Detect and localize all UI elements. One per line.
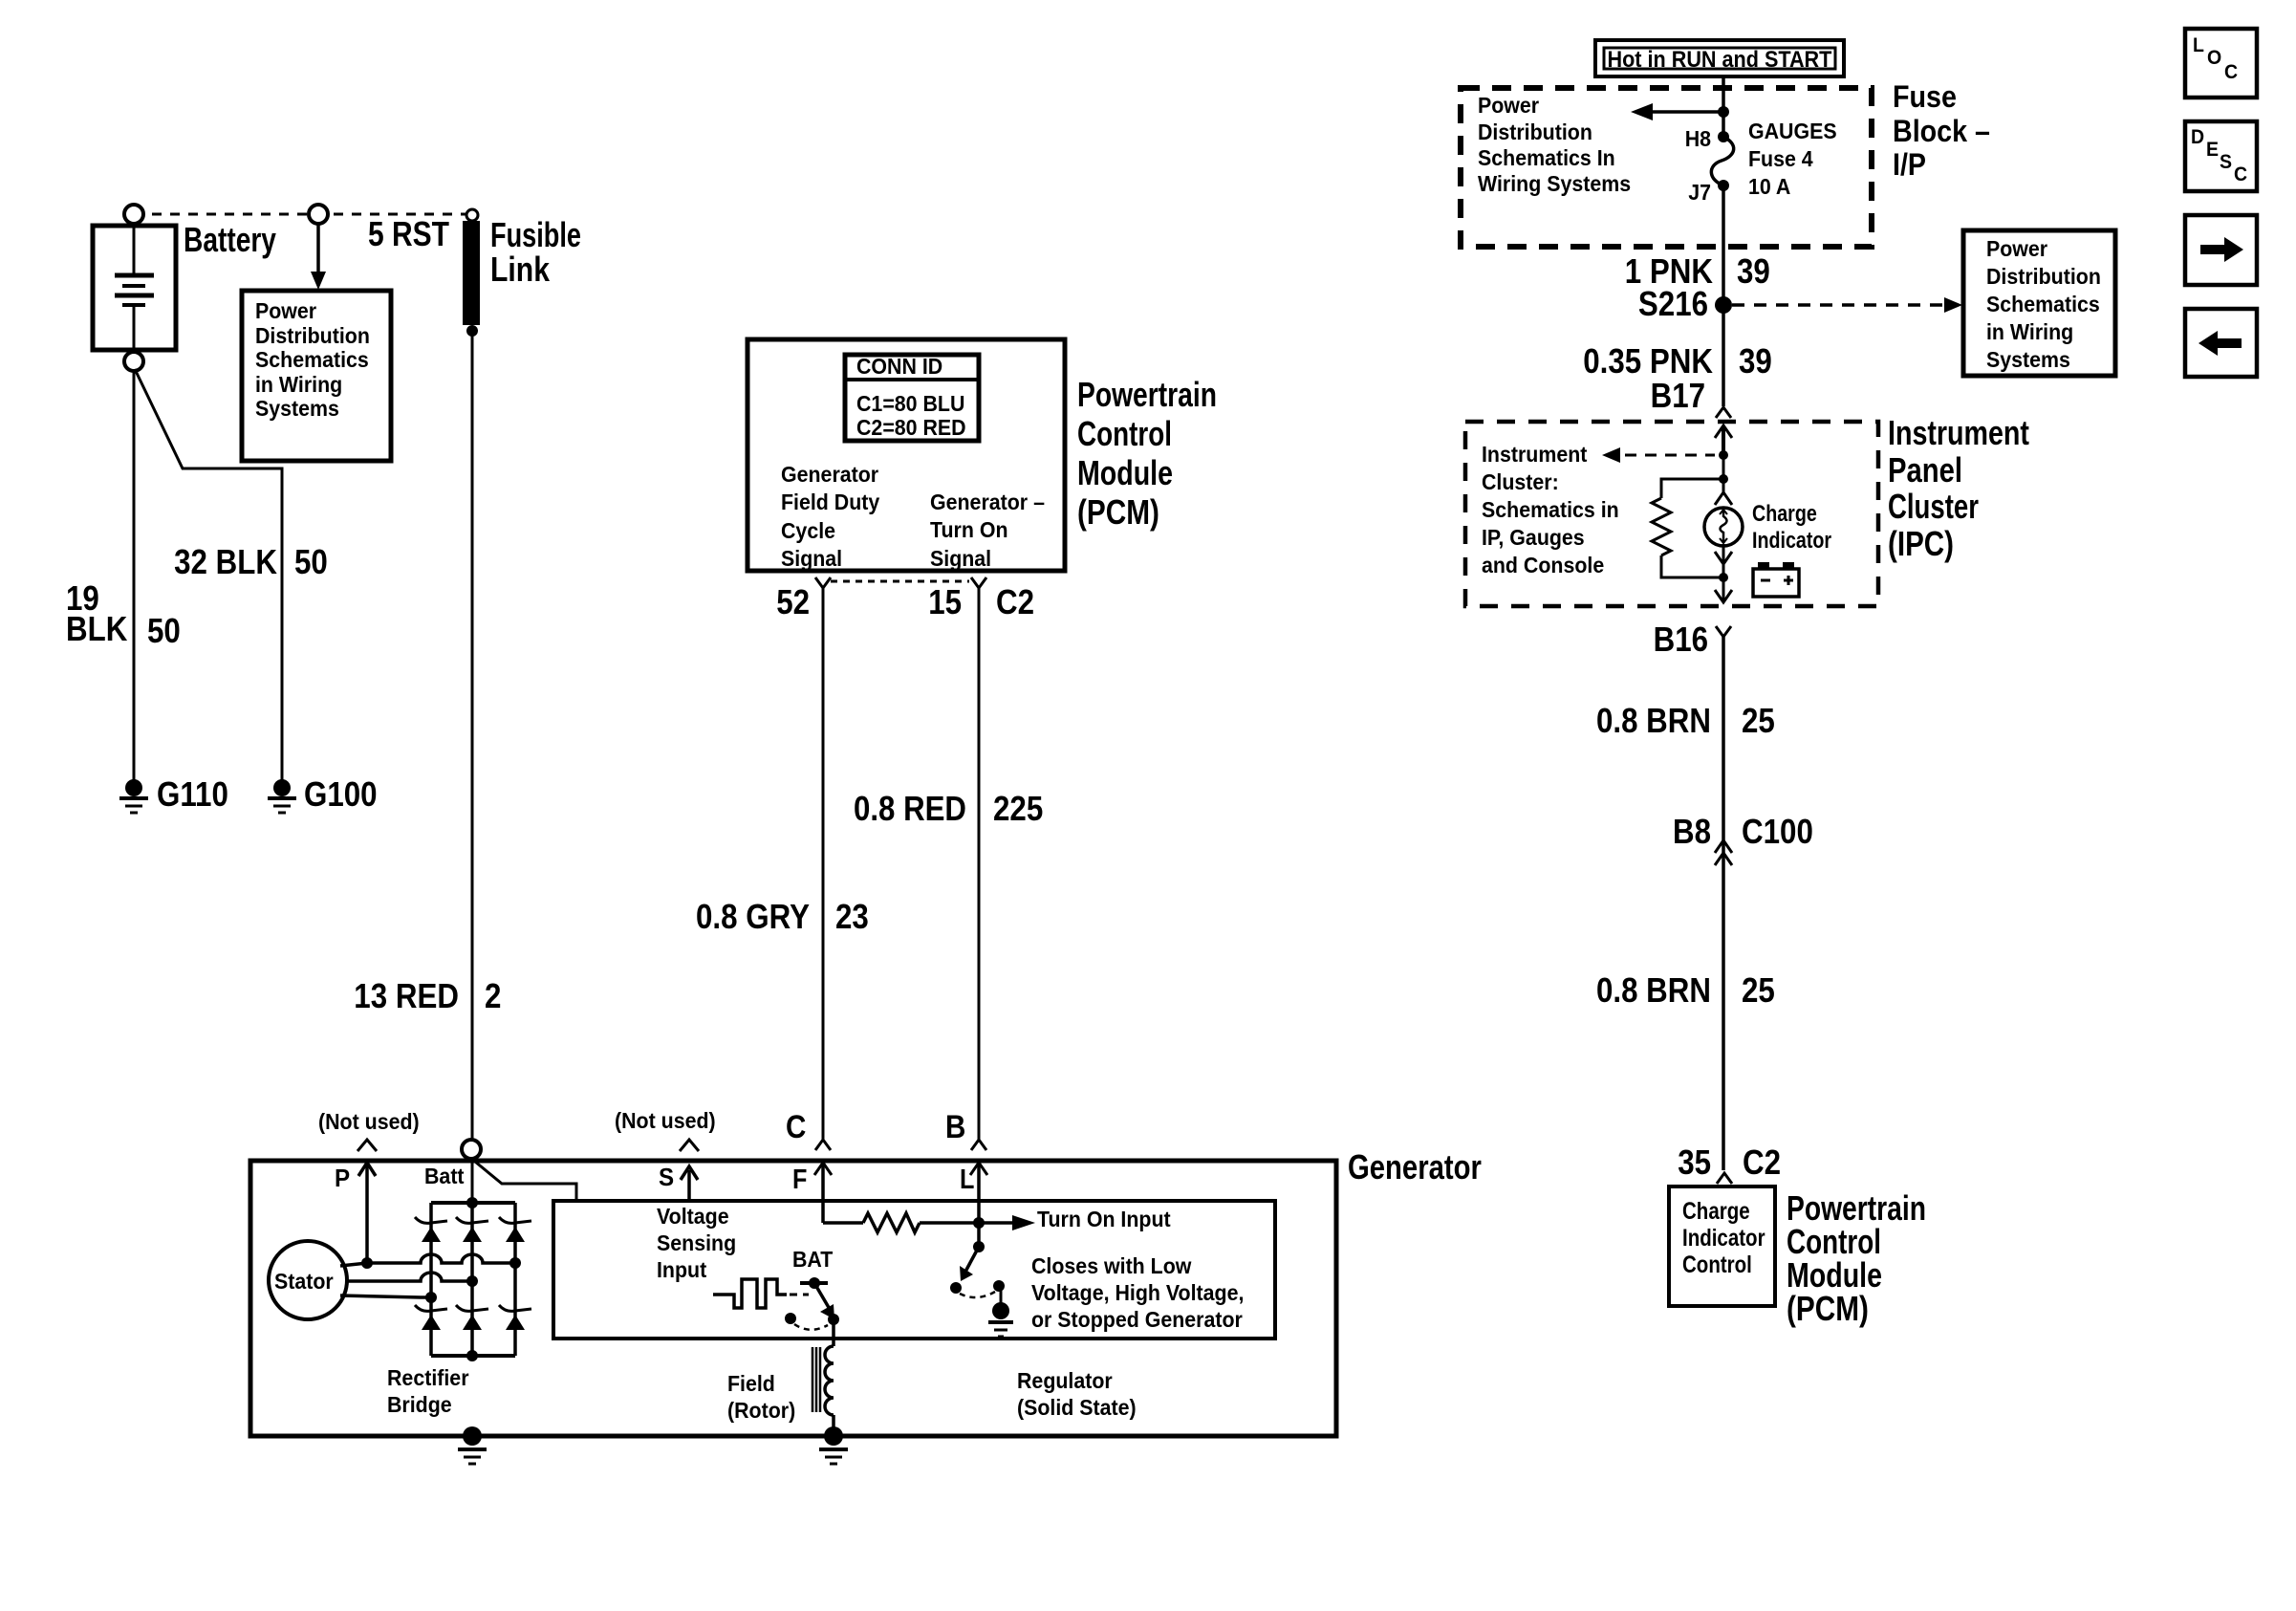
- svg-text:13 RED: 13 RED: [354, 977, 459, 1016]
- splice S216: [1715, 296, 1732, 314]
- wire: fuse to S216: [1722, 185, 1725, 406]
- instrument panel cluster dashed box: [1465, 422, 1878, 606]
- svg-text:25: 25: [1742, 971, 1775, 1011]
- svg-text:Panel: Panel: [1888, 450, 1962, 490]
- diode lower middle: [463, 1315, 482, 1330]
- switch L (closes with low voltage): [977, 1223, 981, 1247]
- svg-text:Turn On Input: Turn On Input: [1037, 1207, 1171, 1231]
- svg-text:(Solid State): (Solid State): [1017, 1395, 1137, 1420]
- svg-text:G100: G100: [304, 775, 378, 815]
- svg-text:Module: Module: [1077, 454, 1173, 492]
- svg-text:C2=80 RED: C2=80 RED: [856, 415, 966, 440]
- svg-text:2: 2: [485, 977, 501, 1016]
- svg-text:25: 25: [1742, 702, 1775, 741]
- wire: hot feed into fuse block: [1722, 76, 1725, 137]
- label Regulator (Solid State): [1017, 1368, 1113, 1393]
- svg-text:Fuse: Fuse: [1893, 80, 1957, 115]
- wire: 19 BLK battery to G110: [133, 371, 136, 781]
- svg-text:Regulator: Regulator: [1017, 1368, 1113, 1393]
- svg-text:C: C: [786, 1108, 806, 1144]
- terminal Batt circle: [462, 1140, 481, 1159]
- label B: [945, 1108, 965, 1144]
- power distribution schematics box (right): [1963, 230, 2115, 376]
- icon LOC: [2185, 29, 2257, 98]
- svg-text:15: 15: [928, 583, 962, 622]
- wire: 32 BLK battery to G100: [135, 369, 282, 781]
- svg-text:Schematics: Schematics: [255, 347, 369, 372]
- generator box: [250, 1161, 1336, 1436]
- IPC battery symbol: [1753, 569, 1799, 597]
- resistor (IPC shunt): [1719, 474, 1728, 484]
- svg-text:23: 23: [835, 898, 869, 937]
- wire: 0.8 GRY pin 52 to generator F: [822, 588, 825, 1140]
- icon arrow left: [2185, 309, 2257, 377]
- node: IPC lower junction: [1719, 573, 1728, 582]
- CONN ID table: [845, 355, 979, 441]
- svg-text:35: 35: [1678, 1143, 1711, 1183]
- svg-text:225: 225: [993, 790, 1043, 829]
- wire: battery internal top: [133, 224, 136, 276]
- svg-text:0.35 PNK: 0.35 PNK: [1583, 342, 1713, 381]
- connector fork C: [815, 1140, 831, 1150]
- label Charge Indicator: [1752, 500, 1817, 526]
- label Fusible Link: [490, 215, 581, 254]
- svg-text:B17: B17: [1651, 377, 1705, 416]
- svg-text:Voltage, High Voltage,: Voltage, High Voltage,: [1031, 1280, 1244, 1305]
- stator phase B wire: [345, 1273, 472, 1281]
- svg-text:L: L: [2193, 34, 2204, 56]
- label 0.35 PNK 39: [1583, 342, 1713, 381]
- wire: IPC exit: [1722, 577, 1725, 602]
- svg-text:or Stopped Generator: or Stopped Generator: [1031, 1307, 1243, 1332]
- pin 15 connector fork: [971, 577, 986, 588]
- svg-text:O: O: [2207, 47, 2221, 69]
- label (Not used) S: [615, 1108, 716, 1133]
- svg-text:S216: S216: [1638, 285, 1708, 324]
- svg-text:L: L: [960, 1163, 974, 1194]
- svg-text:C: C: [2224, 61, 2238, 83]
- svg-text:Batt: Batt: [424, 1164, 465, 1188]
- label 32 BLK 50: [174, 543, 277, 582]
- svg-text:Generator: Generator: [781, 462, 878, 487]
- label Field (Rotor): [727, 1371, 775, 1396]
- svg-text:Distribution: Distribution: [1478, 120, 1592, 144]
- label BAT: [792, 1247, 834, 1272]
- svg-text:0.8 BRN: 0.8 BRN: [1596, 702, 1711, 741]
- svg-text:S: S: [659, 1164, 674, 1191]
- svg-text:H8: H8: [1685, 126, 1711, 151]
- field coil ground: [824, 1426, 843, 1446]
- wire: Batt to rectifier bus: [471, 1159, 474, 1203]
- svg-text:(PCM): (PCM): [1077, 492, 1159, 531]
- wire: 0.8 RED pin 15 to generator L: [978, 588, 981, 1140]
- label (Not used) P: [318, 1109, 420, 1134]
- svg-text:C100: C100: [1742, 813, 1813, 852]
- field coil (rotor): [832, 1319, 835, 1346]
- svg-text:Bridge: Bridge: [387, 1392, 452, 1417]
- svg-text:39: 39: [1739, 342, 1772, 381]
- svg-text:Schematics in: Schematics in: [1482, 497, 1619, 522]
- svg-text:Charge: Charge: [1682, 1197, 1750, 1224]
- label 15: [928, 583, 962, 622]
- node: fusible link top circle: [466, 209, 478, 221]
- svg-text:F: F: [792, 1163, 807, 1194]
- svg-text:(Not used): (Not used): [615, 1108, 716, 1133]
- svg-text:52: 52: [776, 583, 810, 622]
- node: power distribution tap circle: [309, 205, 328, 224]
- icon arrow right: [2185, 215, 2257, 285]
- field duty cycle waveform: [713, 1279, 787, 1308]
- svg-text:50: 50: [147, 612, 181, 651]
- svg-text:IP, Gauges: IP, Gauges: [1482, 525, 1585, 550]
- label Voltage Sensing Input: [657, 1204, 729, 1229]
- svg-text:B8: B8: [1673, 813, 1711, 852]
- label 0.8 BRN 25 (upper): [1596, 702, 1711, 741]
- fuse block dashed box: [1461, 88, 1872, 247]
- svg-text:5 RST: 5 RST: [368, 215, 449, 253]
- svg-text:J7: J7: [1688, 180, 1711, 205]
- Hot in RUN and START box: [1595, 40, 1844, 76]
- power distribution schematics box (left): [242, 291, 391, 461]
- label 1 PNK 39: [1625, 252, 1714, 292]
- label C: [786, 1108, 806, 1144]
- label Fuse Block I/P: [1893, 80, 1957, 115]
- svg-text:0.8 GRY: 0.8 GRY: [696, 898, 810, 937]
- diode upper middle: [463, 1227, 482, 1242]
- svg-text:39: 39: [1737, 252, 1770, 292]
- svg-text:Field: Field: [727, 1371, 775, 1396]
- svg-text:Powertrain: Powertrain: [1077, 376, 1217, 414]
- connector C100: [1673, 813, 1711, 852]
- node: battery negative terminal circle: [124, 352, 143, 371]
- label Powertrain Control Module (PCM): [1077, 376, 1217, 414]
- charge indicator lamp: [1722, 455, 1725, 492]
- diode upper right: [506, 1227, 525, 1242]
- svg-text:GAUGES: GAUGES: [1748, 119, 1837, 143]
- svg-text:Hot in RUN and START: Hot in RUN and START: [1608, 46, 1832, 72]
- node: fuse feed junction: [1718, 106, 1729, 118]
- diode upper left: [422, 1227, 441, 1242]
- svg-text:B16: B16: [1654, 620, 1708, 660]
- svg-text:Signal: Signal: [781, 546, 842, 571]
- label 52: [776, 583, 810, 622]
- label 0.8 RED 225: [854, 791, 966, 829]
- svg-text:Indicator: Indicator: [1752, 527, 1831, 553]
- label G110: [157, 775, 228, 815]
- ground G110: [125, 779, 142, 796]
- svg-text:Schematics In: Schematics In: [1478, 145, 1615, 170]
- svg-text:Wiring Systems: Wiring Systems: [1478, 171, 1631, 196]
- label 5 RST: [368, 215, 449, 253]
- svg-text:0.8 BRN: 0.8 BRN: [1596, 971, 1711, 1011]
- battery: [93, 226, 176, 350]
- svg-text:C2: C2: [996, 583, 1034, 622]
- label 19 BLK 50: [66, 579, 99, 619]
- svg-text:Closes with Low: Closes with Low: [1031, 1253, 1192, 1278]
- svg-text:C2: C2: [1743, 1143, 1781, 1183]
- svg-text:Instrument: Instrument: [1888, 414, 2029, 452]
- svg-text:C: C: [2234, 163, 2247, 185]
- wire: Batt to regulator: [475, 1162, 576, 1201]
- svg-text:I/P: I/P: [1893, 149, 1926, 183]
- svg-text:Control: Control: [1077, 415, 1172, 453]
- label 0.8 GRY 23: [696, 898, 810, 937]
- svg-text:Systems: Systems: [255, 396, 339, 421]
- charge indicator control box: [1669, 1186, 1775, 1306]
- pin 52 connector fork: [815, 577, 831, 588]
- label C2 (pin): [996, 583, 1034, 622]
- terminal P arrow: [335, 1165, 350, 1192]
- svg-text:Cluster: Cluster: [1888, 487, 1979, 525]
- node: IPC entry junction: [1719, 450, 1728, 460]
- rectifier bottom bus: [431, 1354, 515, 1358]
- svg-text:Fuse 4: Fuse 4: [1748, 146, 1813, 171]
- stator phase A wire: [340, 1254, 515, 1266]
- icon DESC: [2185, 121, 2257, 191]
- stator: [269, 1241, 347, 1319]
- label Instrument Panel Cluster (IPC): [1888, 414, 2029, 452]
- label B17: [1651, 377, 1705, 416]
- regulator box: [553, 1201, 1275, 1339]
- diode lower right: [506, 1315, 525, 1330]
- svg-text:Sensing: Sensing: [657, 1230, 736, 1255]
- svg-text:50: 50: [294, 543, 328, 582]
- fusible link: [463, 221, 480, 325]
- connector B16: [1716, 626, 1731, 637]
- svg-text:Distribution: Distribution: [255, 323, 370, 348]
- label Powertrain Control Module (PCM) lower: [1787, 1189, 1926, 1228]
- label Generator Turn On Signal: [930, 490, 1045, 514]
- svg-text:in Wiring: in Wiring: [255, 372, 342, 397]
- node: L junction: [973, 1217, 985, 1229]
- svg-text:Indicator: Indicator: [1682, 1224, 1765, 1251]
- switch BAT contact: [800, 1281, 828, 1285]
- svg-text:10 A: 10 A: [1748, 174, 1790, 199]
- arrow to power distribution schematics (left): [316, 224, 320, 273]
- svg-text:BAT: BAT: [792, 1247, 834, 1272]
- label Battery: [184, 221, 276, 259]
- arrow Turn On Input: [979, 1221, 1012, 1225]
- connector B17: [1716, 407, 1731, 418]
- svg-text:and Console: and Console: [1482, 553, 1604, 577]
- label H8: [1685, 126, 1711, 151]
- svg-text:32 BLK: 32 BLK: [174, 543, 277, 582]
- svg-text:E: E: [2206, 139, 2219, 161]
- svg-text:Voltage: Voltage: [657, 1204, 729, 1229]
- svg-text:(PCM): (PCM): [1787, 1289, 1869, 1327]
- wire: 0.8 BRN C100 to PCM: [1722, 841, 1725, 1170]
- svg-text:(Rotor): (Rotor): [727, 1398, 795, 1423]
- svg-text:Rectifier: Rectifier: [387, 1365, 469, 1390]
- svg-text:Block –: Block –: [1893, 115, 1990, 149]
- svg-text:Generator –: Generator –: [930, 490, 1045, 514]
- stator phase C wire: [340, 1295, 431, 1297]
- svg-text:D: D: [2191, 126, 2204, 148]
- label Instrument Cluster Schematics in IP Gauges and Console: [1482, 442, 1588, 467]
- svg-text:BLK: BLK: [66, 610, 128, 649]
- svg-text:Power: Power: [255, 298, 316, 323]
- label Generator Field Duty Cycle Signal: [781, 462, 878, 487]
- svg-text:Distribution: Distribution: [1986, 264, 2101, 289]
- svg-text:Fusible: Fusible: [490, 215, 581, 254]
- label 0.8 BRN 25 (lower): [1596, 971, 1711, 1011]
- label Closes with Low Voltage High Voltage or Stopped Generator: [1031, 1253, 1192, 1278]
- svg-text:Schematics: Schematics: [1986, 292, 2100, 316]
- label Rectifier Bridge: [387, 1365, 469, 1390]
- svg-text:0.8 RED: 0.8 RED: [854, 791, 966, 829]
- svg-text:Input: Input: [657, 1257, 707, 1282]
- diode lower left: [422, 1315, 441, 1330]
- svg-text:in Wiring: in Wiring: [1986, 319, 2073, 344]
- node: battery positive terminal circle: [124, 205, 143, 224]
- label J7: [1688, 180, 1711, 205]
- svg-text:Cycle: Cycle: [781, 518, 835, 543]
- PCM pin dashed link: [831, 580, 969, 583]
- svg-text:(Not used): (Not used): [318, 1109, 420, 1134]
- resistor to turn on input: [823, 1221, 863, 1225]
- connector fork B: [971, 1140, 986, 1150]
- svg-text:Systems: Systems: [1986, 347, 2070, 372]
- svg-text:Field Duty: Field Duty: [781, 490, 880, 514]
- fuse GAUGES Fuse 4 10A: [1718, 131, 1729, 142]
- svg-text:(IPC): (IPC): [1888, 524, 1954, 562]
- svg-text:Cluster:: Cluster:: [1482, 469, 1559, 494]
- svg-text:B: B: [945, 1108, 965, 1144]
- terminal F arrow: [792, 1163, 807, 1194]
- svg-text:Control: Control: [1682, 1251, 1752, 1277]
- wire: 13 RED from fusible link to generator Batt: [471, 336, 474, 1140]
- connector 35 C2: [1678, 1143, 1711, 1183]
- svg-text:Power: Power: [1478, 93, 1539, 118]
- PCM box: [747, 339, 1065, 571]
- svg-text:Power: Power: [1986, 236, 2047, 261]
- ground G100: [273, 779, 291, 796]
- label Power Distribution Schematics In Wiring Systems (fuse block): [1478, 93, 1539, 118]
- svg-text:G110: G110: [157, 775, 228, 815]
- wire: dashed battery positive bus: [134, 213, 472, 216]
- dashed arrow to instrument cluster schematics: [1625, 454, 1715, 457]
- label GAUGES Fuse 4 10 A: [1748, 119, 1837, 143]
- svg-text:Turn On: Turn On: [930, 517, 1008, 542]
- rectifier ground: [463, 1426, 482, 1446]
- svg-text:Instrument: Instrument: [1482, 442, 1588, 467]
- wire: 0.8 BRN B16 to C100: [1722, 637, 1725, 841]
- terminal L arrow: [960, 1163, 974, 1194]
- svg-text:Battery: Battery: [184, 221, 276, 259]
- svg-text:Signal: Signal: [930, 546, 991, 571]
- terminal S arrow: [659, 1164, 674, 1191]
- svg-text:S: S: [2220, 151, 2232, 173]
- svg-text:Charge: Charge: [1752, 500, 1817, 526]
- label 13 RED 2: [354, 977, 459, 1016]
- label G100: [304, 775, 378, 815]
- rectifier top bus: [431, 1201, 515, 1205]
- dashed arrow S216 to power distribution: [1732, 303, 1945, 307]
- svg-text:Generator: Generator: [1348, 1147, 1482, 1186]
- svg-text:Stator: Stator: [274, 1269, 334, 1294]
- svg-text:P: P: [335, 1165, 350, 1192]
- label Generator: [1348, 1147, 1482, 1186]
- rectifier bridge columns: [429, 1203, 433, 1356]
- svg-text:Control: Control: [1787, 1223, 1881, 1261]
- svg-text:Link: Link: [490, 251, 550, 290]
- svg-text:C1=80 BLU: C1=80 BLU: [856, 391, 964, 416]
- arrow to power distribution (fuse block): [1653, 110, 1723, 114]
- svg-text:CONN ID: CONN ID: [856, 354, 942, 379]
